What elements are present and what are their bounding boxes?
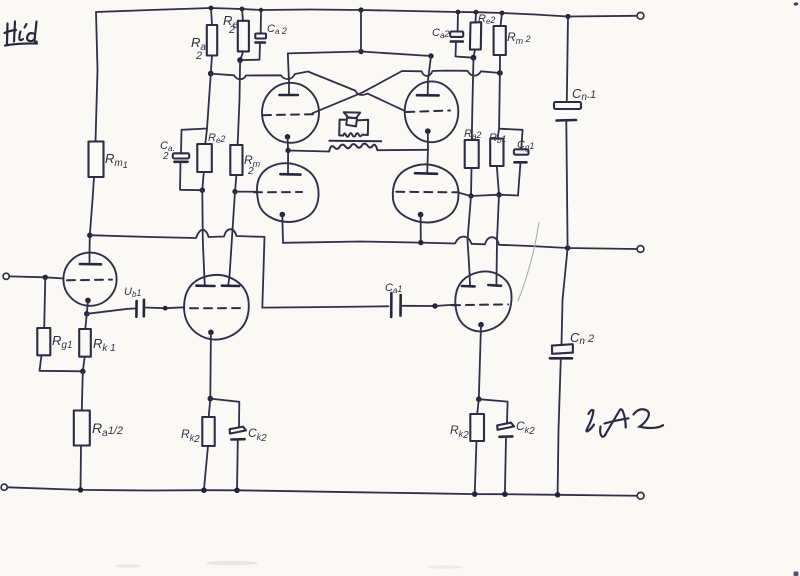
node D [471,55,477,61]
wire node down to Rk2 right [477,399,479,414]
capacitor Ck2 left top plate [230,427,246,434]
capacitor Cg1 bottom plate [515,161,527,164]
capacitor Cn2 bottom plate [550,357,572,360]
tube T3 driver right [455,271,511,331]
node bottom rail Ra1/2 [78,487,84,493]
capacitor Ub1 left plate [135,301,138,317]
capacitor Ca1 left plate [390,293,393,317]
node bottom rail Ck2l [234,488,240,494]
wire Re'2 to node B [240,51,243,60]
node A [208,71,214,77]
node y52 center [358,49,363,54]
speaker magnet rect [339,120,368,137]
capacitor Ub1 right plate [143,300,146,317]
grid bus left: node A to upper-right tube with dips [211,72,405,111]
wire rail to Re2 right [475,12,478,22]
node bottom rail Rk2l [201,487,207,493]
wire Ra2 to plate node [470,168,473,196]
tube T-LR lower-right power tube [393,164,459,222]
wire cathode node to Rk1 [85,314,87,329]
wire T-LR plate to nodes [459,193,499,196]
wire cathode node to Ub1 cap [87,309,135,314]
plate dash T-UR [406,111,450,113]
resistor Rg1 [37,328,50,355]
speaker body tilted box [346,117,357,126]
node B [237,57,243,63]
wire mid rail down to Cn2 [562,248,568,344]
grid bus right: node C to upper-left tube [313,71,500,114]
wire rail to resistor Re'2 [242,9,243,21]
capacitor Ca1 right plate [399,295,402,316]
node mid rail T-LR [418,240,423,245]
annotation KA2 scribble [586,409,663,436]
wire down to T-LL grid [287,151,289,174]
resistor Rk2 left [202,417,214,446]
wire top rail down to y52 [360,10,362,52]
tube T-UR upper-right power tube [405,81,459,142]
capacitor Cas2 bottom plate [256,41,265,44]
wire Cas2 to node B [240,43,260,61]
wire Rg1 to junction [40,355,83,371]
wire Ub1 to tube2 [145,306,185,309]
node T1 cathode [84,311,90,317]
svg-text:2: 2 [247,166,254,177]
cathode dot T-LR [418,212,424,218]
wire Ck2 to bottom rail [236,440,239,491]
mid rail y243 with hops [283,237,637,249]
plate dash T-LR [396,191,459,194]
node y52 right [428,53,433,58]
wire Rb1 to node [497,166,499,195]
node top rail junctions [209,6,214,11]
tube T1 input triode [63,253,116,306]
top supply rail [96,8,637,17]
wire rail to resistor Ra/2 [211,8,212,25]
wire Ca1 to tube3 [403,305,456,306]
wire Ca2 to node D [456,42,474,58]
capacitor Cg1 top plate [514,149,529,154]
wire node down into tube2 grid1 [202,190,205,285]
capacitor Cn1 bottom plate [557,119,577,122]
wire node C down to Rb1 [498,73,500,139]
grid bar T-UR [417,94,439,97]
resistor Ra2 [465,140,479,168]
resistor Re2 right [470,22,481,49]
node Re2/Ca5 junction [200,188,205,193]
wire T-LL cathode to mid rail [281,215,284,243]
resistor Rm2 right [494,26,506,55]
line above coil [329,140,381,142]
resistor Re'2 [238,21,249,52]
wire left rail y236 with hops [90,229,265,238]
stray faint arc near tube3 [518,222,539,301]
wire node down into tube3 grid1 [468,196,472,285]
grid bar T2 b [222,284,239,287]
wire vertical x264 down to Ca1 line [262,237,264,308]
faint smudge bottom center [206,561,258,565]
terminal top right [637,12,644,19]
wire Ra1/2 to bottom rail [80,446,83,490]
cathode dot T1 [85,298,91,304]
wire Re2 to cap node [202,172,204,190]
capacitor Ca2 bottom plate [451,40,463,43]
node bottom rail Ck2r [502,491,508,497]
wire Ra/2 to node A [211,56,212,74]
wire junction down to Ra1/2 [82,371,83,410]
wire Cn1 column from rail [567,17,568,103]
capacitor Ca5.2 bottom plate [175,161,188,164]
wire plate node to lower-left power tube [235,191,258,193]
cathode dot T3 [478,322,484,328]
node input grid [43,275,48,280]
wire Cn1 to mid rail [566,121,567,249]
cathode dot T-UR [425,128,431,134]
node bottom rail Cn2 [555,492,561,498]
wire Rk2 to bottom rail [204,446,208,490]
wire node down into tube3 grid2 [496,195,499,285]
wire grid vertical upper-right tube [428,56,431,95]
resistor Rm2 left [230,145,242,175]
wire Rm2 to plate node [235,175,236,192]
wire T-UL cathode down [287,137,290,151]
node plate right 2 [496,192,501,197]
node Ca1 tube3 [432,303,437,308]
plate dash T-LL [254,191,302,193]
wire node A down to Re2 [205,74,211,144]
grid bar T3 b [488,284,501,287]
capacitor Ca5.2 top plate [173,153,189,158]
capacitor Ck2 left bottom plate [232,438,245,441]
resistor Rk2 right [470,414,484,441]
wire T-LR cathode to mid rail [420,215,422,243]
wire T1 cathode down [87,300,88,313]
node plate right 1 [468,193,473,198]
wire rail to Ca2 cap [457,12,459,32]
wire T2 cathode down [209,332,212,398]
grid bar T-UL [280,94,298,97]
capacitor Ca2 top plate [450,32,463,37]
grid bar T1 [80,263,101,266]
capacitor Ck2 right bottom plate [500,435,513,438]
wire Ck2 right to bottom rail [505,437,506,494]
speck top right [794,2,799,5]
svg-text:2: 2 [162,151,169,162]
node T2 cathode bottom [208,396,214,402]
plate dash T2 [190,307,240,309]
wire stub to capacitor Ca5.2 [181,129,207,154]
grid bar T2 a [196,284,214,287]
wire node right step to Ck2 [210,399,239,427]
tube T-UL upper-left power tube [262,83,319,143]
wire stub to capacitor Cg1 [499,129,522,150]
resistor Re2 [197,144,212,172]
node mid rail Cn [565,245,571,251]
node cathode left [285,148,290,153]
title Hid handwriting [5,22,37,44]
capacitor Cas2 top plate [255,34,266,39]
resistor Rb1 [490,139,503,166]
cathode dot T-UL [285,134,291,140]
resistor Rk1 [79,329,91,357]
wire Ca1 line left segment [262,306,388,307]
wire grid node to Rg1 [44,277,45,328]
terminal bottom right [637,492,644,499]
speaker horn [344,112,361,118]
node grid bus left end [87,233,92,238]
terminal bottom left [1,484,7,490]
node T3 cathode bottom [476,396,482,402]
wire rail to Rm2 right [501,13,503,26]
wire Cn2 to bottom rail [558,358,561,495]
grid bar T-LL [280,173,300,176]
node plate T-LL [232,189,237,194]
wire node D down to Ra2 [472,58,474,140]
resistor Ra/2 (top left) [207,25,217,56]
input terminal [3,273,9,279]
wire Rk2 right to bottom rail [475,441,477,494]
cathode dot T-LL [280,212,286,218]
node bottom rail Rk2r [472,491,478,497]
wire Cg1 down to plate wire [499,162,521,195]
capacitor Ck2 right top plate [497,423,514,430]
inductor coil [329,144,377,152]
svg-text:2: 2 [228,24,235,36]
grid bar T3 a [462,285,475,288]
wire Rm2r to node C [499,55,501,73]
wire T-UR cathode down [426,131,429,172]
title underline [5,43,37,45]
wire cathode left to coil [288,151,329,152]
capacitor Cn2 top plate [552,344,573,354]
wire rail to capacitor Cas2 [260,10,262,34]
tube T-LL lower-left power tube [257,163,319,222]
wire node down to Rk2 left [209,399,211,417]
wire Ca5.2 down to node [180,162,202,190]
resistor Rm1 [89,142,104,178]
terminal mid right [637,246,644,253]
svg-text:2: 2 [195,50,202,62]
plate dash T-UL [263,114,313,115]
capacitor Cn1 top plate [554,102,581,109]
wire T3 cathode down [479,325,481,400]
cathode dot T2 [208,330,214,336]
wire Re2r to node D [474,50,476,58]
wire Rm1 to grid node [90,177,95,264]
tube T2 driver left [184,275,249,340]
grid bar T-LR [415,172,437,175]
wire grid vertical upper-left tube [288,53,289,94]
wire coil right to cathode right [378,149,429,151]
speck bottom right [794,572,799,576]
wire node right step to Ck2 right [479,399,508,423]
plate dash T3 [452,303,508,306]
node C [497,70,503,76]
resistor Ra1/2 [74,411,90,446]
wire top rail to Rm1 [96,12,98,142]
wire Rk1 to junction [83,357,85,372]
wire node B down to Rm2 left [238,60,241,145]
wire node down into tube2 grid2 [228,192,235,285]
wire mid horizontal y52 [288,52,431,57]
node small Ub1 [163,306,168,311]
wire input to tube1 [9,276,63,278]
bottom rail [7,487,637,496]
node Rg1/Rk1 junction [80,369,86,375]
plate dash T1 [67,279,112,282]
